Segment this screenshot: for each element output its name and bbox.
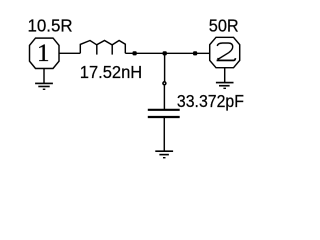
ground under port P2 [216,68,234,89]
junction dot 1 [133,51,137,55]
svg-text:1: 1 [37,40,50,67]
wire inductor to port2 [125,52,209,54]
wire node to capacitor [163,85,165,109]
ground under port P1 [35,68,53,89]
junction dot 3 [193,51,197,55]
port P1 octagon [30,38,60,68]
svg-text:10.5R: 10.5R [28,15,73,35]
junction dot 2 [163,51,167,55]
wire junction2 down to node [164,53,166,81]
capacitor C1 bottom plate [148,116,180,118]
inductor L1 coil [80,40,125,53]
inductor tick 1 [96,45,98,55]
inductor tick 2 [111,45,113,55]
wire port1 to inductor [59,52,80,54]
port P2 octagon [210,37,240,67]
capacitor C1 top plate [148,109,180,111]
svg-text:33.372pF: 33.372pF [177,91,244,111]
svg-text:17.52nH: 17.52nH [80,63,142,83]
node circle [163,82,166,85]
ground under capacitor [155,151,173,158]
port P2 number 2 [217,43,236,60]
svg-text:50R: 50R [209,16,239,36]
wire capacitor to ground [163,118,165,151]
